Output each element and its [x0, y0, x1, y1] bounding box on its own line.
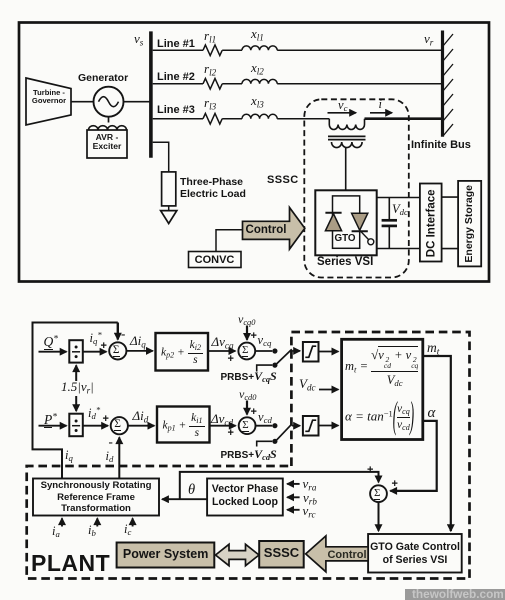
label vrb: [303, 491, 317, 505]
wire limiter2 to modulation box: [319, 425, 339, 427]
label series VSI: [317, 256, 373, 269]
label turbine-governor: [27, 89, 71, 106]
label Vdc: [392, 203, 408, 217]
infinite bus bar: [441, 31, 444, 137]
control arrow to SSSC: [306, 536, 368, 572]
wire generator to AVR coil: [108, 117, 110, 123]
PI2 content kp1+ki1/s: [160, 413, 208, 439]
label P*: [44, 413, 57, 428]
label r_l2: [204, 62, 216, 76]
control arrow into SSSC: [243, 208, 305, 250]
generator sine glyph: [99, 97, 119, 107]
v_c arrow: [328, 112, 357, 114]
wire P* into divider2: [39, 425, 67, 427]
wire turbine to generator: [71, 101, 94, 103]
label SSSC plant: [259, 546, 304, 560]
wire bus to load: [153, 142, 169, 172]
limiter 1: [303, 342, 319, 362]
label control (top arrow): [243, 224, 290, 237]
label mt output: [427, 341, 439, 356]
label minus sum2: [109, 435, 113, 449]
label CONVC: [189, 254, 241, 266]
limiter 2: [303, 416, 319, 436]
transformer core: [328, 135, 366, 137]
sigma glyph sum3: [242, 344, 248, 356]
summing junction sum4: [239, 417, 256, 434]
wire line1: [153, 49, 203, 51]
switch arm q-axis: [277, 349, 292, 363]
label delta iq: [130, 334, 146, 348]
label Q*: [44, 335, 58, 350]
transformer secondary winding: [332, 142, 363, 148]
mt arrow into gate control: [450, 526, 452, 531]
vrc arrow into PLL: [287, 509, 299, 511]
label vcd0: [239, 388, 256, 401]
label iq*: [90, 332, 102, 346]
label r_l1: [204, 29, 216, 43]
label ic: [124, 523, 131, 537]
outer frame of power system diagram: [19, 23, 489, 282]
bidirectional arrow power system / SSSC: [216, 544, 260, 565]
label minus sum1: [121, 327, 125, 341]
watermark text: [412, 588, 504, 600]
wire divider1 to sum1: [83, 351, 107, 353]
summing junction sum5: [370, 485, 387, 502]
label DC interface (rotated): [425, 159, 438, 287]
SSSC dashed boundary: [304, 99, 409, 277]
label vector phase locked loop: [207, 483, 283, 509]
label Line #1: [157, 38, 195, 50]
switch arm d-axis: [277, 424, 292, 440]
arrow into sum1 top: [117, 323, 119, 340]
wire line2 to infinite bus: [277, 83, 441, 85]
power system box: [117, 543, 215, 568]
PI1 content kp2+ki2/s: [158, 340, 206, 366]
turbine-governor block: [26, 78, 71, 125]
ic arrow: [132, 518, 134, 526]
resistor r_l1: [203, 45, 222, 56]
theta wire to sync transform: [162, 498, 207, 500]
divider box 2: [69, 414, 83, 437]
dc bottom rail: [377, 248, 420, 250]
label x_l3: [251, 94, 264, 108]
label control (bottom arrow): [326, 549, 368, 561]
label plus sum3 left: [228, 353, 234, 365]
mt output wire: [423, 356, 451, 531]
i arrow: [370, 112, 392, 114]
vra arrow into PLL: [287, 483, 299, 485]
node PRBS lower contact d-axis: [272, 439, 277, 444]
1.5vr arrow down into divider2: [75, 396, 77, 411]
label three-phase electric load: [180, 176, 246, 201]
label vrc: [303, 504, 316, 518]
Vdc arrow into modulation box: [319, 389, 338, 391]
wire load to ground arrow: [168, 206, 170, 211]
resistor r_l3: [203, 113, 222, 124]
wire DC interface to energy storage top: [442, 196, 459, 198]
wire line3: [153, 118, 203, 120]
label plus sum5 right: [392, 478, 398, 490]
sigma glyph sum1: [113, 344, 120, 357]
label PLANT: [31, 551, 110, 576]
ib arrow: [96, 518, 98, 526]
label ib: [88, 524, 96, 538]
node vcq switch upper contact: [272, 348, 277, 353]
vcq0 arrow into sum3: [246, 326, 248, 340]
label i: [379, 98, 382, 112]
label delta vcd: [211, 412, 233, 426]
label vr: [424, 32, 433, 46]
series VSI box: [315, 190, 376, 255]
label PRBS+VcdS: [221, 448, 277, 461]
wire sum4 to switch node: [256, 425, 273, 427]
divider box 1: [69, 340, 83, 362]
infinite bus hatching: [443, 34, 453, 136]
vector phase locked loop box: [207, 479, 283, 516]
iq feedback wire to sum1: [33, 323, 118, 479]
label iq feedback: [65, 449, 73, 463]
PI controller box 2 kp1: [157, 407, 210, 443]
SSSC plant box: [259, 541, 304, 568]
label delta id: [133, 409, 149, 423]
GTO gate control box: [368, 534, 462, 573]
label GTO gate control: [368, 541, 462, 569]
label ia: [52, 525, 60, 539]
inductor x_l1: [242, 46, 277, 50]
energy storage box: [458, 181, 481, 267]
label energy storage (rotated): [464, 159, 476, 287]
inductor x_l3: [242, 114, 277, 118]
label id feedback: [106, 450, 114, 464]
wire switch to limiter2: [292, 425, 300, 427]
summing junction sum3: [238, 343, 255, 360]
wire line2: [153, 83, 203, 85]
label plus sum4 left: [228, 427, 234, 439]
label id*: [88, 407, 100, 421]
wire divider2 to sum2: [83, 425, 108, 427]
wire limiter1 to modulation box: [319, 351, 339, 353]
synchronously rotating reference frame box: [33, 479, 159, 516]
AVR exciter field coil: [89, 126, 127, 130]
label GTO: [335, 234, 356, 245]
generator bus bar vs: [149, 31, 153, 157]
wire: [222, 49, 242, 51]
label v_c: [338, 99, 347, 113]
theta branch wire to sum5: [180, 472, 379, 499]
wire sum2 to PI box 2: [128, 425, 154, 427]
wire sum3 to switch node: [255, 350, 272, 352]
diode D1 (left): [325, 213, 341, 231]
id feedback arrow up into sum2: [118, 437, 120, 478]
label power system: [117, 548, 215, 562]
sigma glyph sum5: [374, 487, 380, 499]
wire sum1 to PI box 1: [126, 350, 152, 352]
1.5vr arrow up into divider1: [75, 365, 77, 381]
AVR-Exciter box: [87, 130, 127, 158]
modulation index / angle box: [342, 339, 423, 439]
label x_l1: [251, 27, 264, 41]
wire Q* into divider: [39, 351, 67, 353]
wire sum5 to gate control: [378, 502, 380, 531]
modulation box formula alpha: [345, 404, 414, 431]
wire line1 to infinite bus: [277, 49, 441, 51]
label plus sum4 top: [251, 406, 257, 418]
label SSSC: [267, 174, 299, 186]
label 1.5vr: [61, 380, 94, 394]
dc top rail: [377, 197, 420, 199]
label x_l2: [251, 61, 264, 75]
label plus sum1: [101, 340, 107, 352]
label Vdc input: [299, 377, 316, 391]
PI controller box 1 kp2: [156, 333, 209, 371]
label plus sum2: [103, 413, 109, 425]
label delta vcq: [212, 335, 234, 349]
vcd0 arrow into sum4: [246, 401, 248, 415]
sigma glyph sum2: [114, 418, 121, 431]
ia arrow: [61, 518, 63, 526]
transformer primary winding: [329, 119, 364, 130]
vrb arrow into PLL: [287, 496, 299, 498]
PRBS wire to lower contact d-axis: [257, 441, 273, 446]
wire PI2 to sum4: [210, 425, 236, 427]
modulation box formula mt: [345, 348, 418, 387]
label infinite bus: [411, 139, 471, 151]
node vcd switch upper contact: [272, 423, 277, 428]
wire: [222, 118, 242, 120]
label Line #2: [157, 71, 195, 83]
alpha output wire: [390, 421, 436, 491]
label generator: [78, 73, 128, 85]
label theta: [188, 483, 195, 499]
node PRBS lower contact: [272, 363, 277, 368]
VSI bridge wires: [333, 196, 360, 248]
wire secondary to series VSI: [345, 148, 347, 191]
controller/plant dashed boundary: [27, 332, 470, 579]
PRBS wire to lower contact: [257, 365, 273, 371]
label AVR exciter: [87, 133, 127, 152]
resistor r_l2: [203, 79, 222, 90]
wire generator to bus: [124, 101, 150, 103]
DC interface box: [420, 184, 442, 262]
label vs: [134, 32, 143, 46]
label vcq0: [238, 313, 255, 326]
sigma glyph sum4: [242, 419, 248, 431]
summing junction sum1: [109, 342, 126, 359]
wire switch to limiter1: [292, 350, 300, 352]
label sync rotating frame box: [33, 480, 159, 515]
label PRBS+VcqS: [221, 370, 277, 383]
CONVC box: [189, 252, 242, 268]
GTO thyristor (right): [352, 213, 374, 245]
ground arrow (open triangle): [161, 211, 177, 224]
label plus sum5 top: [367, 464, 373, 476]
label vra: [303, 477, 317, 491]
label Line #3: [157, 104, 195, 116]
label alpha output: [428, 405, 436, 422]
label vcd: [258, 411, 272, 425]
wire PI1 to sum3: [208, 350, 235, 352]
summing junction sum2: [111, 417, 128, 434]
label r_l3: [204, 96, 216, 110]
inductor x_l2: [242, 79, 277, 83]
wire: [222, 83, 242, 85]
label vcq: [258, 334, 272, 348]
label plus sum3 top: [251, 330, 257, 342]
wire DC interface to energy storage bottom: [442, 248, 459, 250]
dc capacitor: [382, 198, 397, 249]
generator G1 circle: [94, 87, 124, 117]
wire line3 to transformer: [277, 118, 329, 120]
watermark background: [405, 589, 505, 600]
three-phase electric load resistor: [162, 172, 176, 206]
wire CONVC to control arrow: [216, 230, 243, 252]
thick wire transformer to infinite bus: [365, 117, 442, 120]
